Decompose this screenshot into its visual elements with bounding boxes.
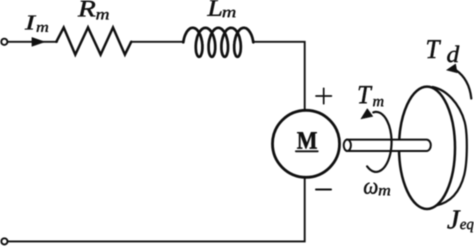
flywheel disk front face [399, 87, 455, 209]
label J_eq [447, 211, 473, 233]
flywheel disk back rim [433, 87, 467, 206]
label R_m [78, 1, 109, 20]
wire inductor to top-right corner down to motor [254, 42, 305, 111]
label omega_m [364, 183, 390, 196]
plus sign [316, 88, 331, 103]
current arrow Im [32, 37, 45, 46]
wire from top terminal to resistor [7, 41, 57, 43]
inductor L_m coil [183, 28, 253, 57]
label L_m [207, 0, 236, 17]
shaft capsule [347, 140, 431, 151]
T_d arrowhead [447, 64, 458, 73]
wire resistor to inductor [131, 41, 183, 43]
label T_m [359, 86, 384, 106]
torque arrow T_m ellipse arc around shaft [367, 112, 391, 172]
minus sign [316, 189, 331, 191]
terminal bottom-left [1, 238, 7, 244]
shaft left end cap [344, 140, 351, 151]
label T_d [427, 40, 459, 62]
terminal top-left input [1, 39, 7, 45]
motor circle U1 [273, 110, 340, 177]
motor label M [297, 132, 317, 148]
wire motor bottom down and left to bottom terminal [8, 177, 305, 241]
label I_m [25, 16, 48, 32]
disturbance torque arrow T_d arc [456, 70, 472, 99]
T_m arrowhead [361, 109, 373, 119]
resistor R_m zigzag [56, 28, 131, 55]
motor label underline [296, 150, 318, 152]
